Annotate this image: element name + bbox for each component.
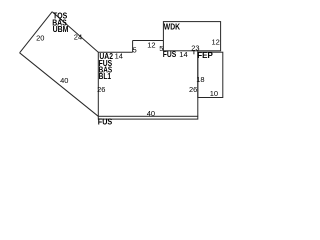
step vertical (5) [132,41,134,53]
side 26: main block right edge [197,51,199,117]
svg-text:20: 20 [36,33,44,42]
WDK deck box [163,22,220,51]
svg-text:WDK: WDK [164,21,181,31]
svg-text:18: 18 [196,75,204,84]
svg-text:12: 12 [147,40,155,49]
svg-text:40: 40 [147,109,155,118]
side 20: TQS section upper-left edge [20,12,53,53]
svg-text:FEP: FEP [197,50,213,60]
svg-text:24: 24 [74,33,82,42]
FEP porch box [198,52,223,97]
svg-text:26: 26 [97,85,105,94]
side 26: main block left edge [97,52,99,116]
tick at FEP label [193,51,195,54]
side 40: TQS section lower-left edge [20,53,99,117]
main block top edge (14) [98,51,132,53]
svg-text:10: 10 [210,89,218,98]
svg-text:26: 26 [189,85,197,94]
svg-text:40: 40 [60,76,68,85]
svg-text:12: 12 [212,38,220,47]
svg-text:BL1: BL1 [99,71,112,81]
step top edge (12) [133,40,164,42]
side 24: TQS section upper-right edge [52,12,98,53]
svg-text:UBM: UBM [53,24,69,34]
svg-text:FUS: FUS [98,117,113,127]
svg-text:14: 14 [179,50,187,59]
svg-text:FUS: FUS [163,49,177,59]
svg-text:14: 14 [115,52,123,61]
svg-text:23: 23 [191,44,199,53]
FUS bottom strip (40) [98,116,198,119]
svg-text:5: 5 [133,46,137,55]
svg-text:5: 5 [159,44,163,53]
